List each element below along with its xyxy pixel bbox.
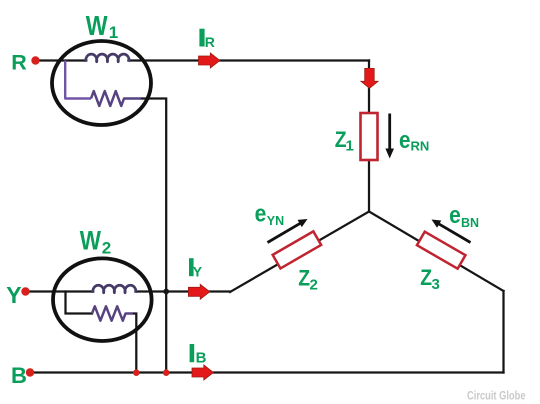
svg-text:2: 2 [102, 238, 111, 257]
svg-text:W: W [86, 10, 108, 41]
svg-text:Y: Y [193, 264, 203, 280]
svg-text:e: e [449, 202, 461, 229]
svg-text:1: 1 [109, 23, 118, 42]
svg-text:e: e [255, 201, 267, 228]
svg-text:1: 1 [346, 138, 354, 155]
svg-text:Circuit Globe: Circuit Globe [467, 390, 526, 402]
svg-text:R: R [11, 50, 27, 74]
svg-text:W: W [80, 226, 102, 256]
svg-text:e: e [399, 127, 411, 154]
svg-text:2: 2 [310, 277, 318, 294]
svg-text:Z: Z [298, 266, 310, 291]
svg-text:Z: Z [420, 265, 432, 290]
svg-text:YN: YN [267, 214, 284, 228]
svg-text:3: 3 [432, 276, 440, 293]
svg-text:RN: RN [411, 138, 430, 153]
svg-text:B: B [11, 363, 27, 388]
svg-text:R: R [205, 34, 215, 50]
svg-text:B: B [196, 350, 207, 367]
svg-text:BN: BN [461, 216, 479, 230]
svg-text:Y: Y [6, 282, 21, 308]
